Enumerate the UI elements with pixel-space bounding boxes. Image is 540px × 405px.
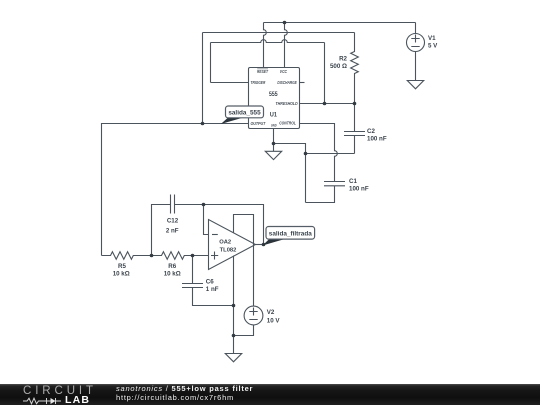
voltage source V2 <box>244 306 263 325</box>
wire TRIGGER vertical <box>210 43 212 83</box>
svg-text:500 Ω: 500 Ω <box>330 63 347 70</box>
svg-text:10 kΩ: 10 kΩ <box>113 271 130 278</box>
svg-text:C12: C12 <box>167 218 179 225</box>
wire OUTPUT line <box>102 124 249 256</box>
wire minus input <box>204 205 209 235</box>
wire gnd net right <box>274 144 306 203</box>
wire top rail <box>264 22 416 24</box>
wire V1 top lead <box>415 23 417 34</box>
wire output stub <box>256 244 264 246</box>
node dot gnd net <box>304 152 308 156</box>
resistor R6 <box>152 252 209 260</box>
footer bar <box>0 384 540 405</box>
svg-text:R5: R5 <box>118 263 126 270</box>
wire vertical from A down to output line <box>202 33 204 124</box>
capacitor C2 <box>344 104 365 154</box>
555 box U1 <box>249 68 300 129</box>
svg-text:TRIGGER: TRIGGER <box>251 80 266 85</box>
wire feedback vertical left <box>152 205 171 256</box>
svg-text:C6: C6 <box>206 279 214 286</box>
node dot rail/VCC <box>283 21 287 25</box>
op-amp plus symbol <box>211 252 218 260</box>
op-amp OA2 triangle <box>209 220 256 270</box>
svg-text:V2: V2 <box>267 309 275 316</box>
wire RESET vertical with hop <box>264 23 267 68</box>
wire V1 bottom lead <box>415 52 417 81</box>
svg-text:C1: C1 <box>349 178 357 185</box>
svg-text:10 kΩ: 10 kΩ <box>164 271 181 278</box>
svg-text:R6: R6 <box>168 263 176 270</box>
svg-text:DISCHARGE: DISCHARGE <box>277 80 296 85</box>
wire CONTROL to C1 with hop <box>300 124 338 182</box>
svg-text:RESET: RESET <box>257 69 268 74</box>
svg-text:OA2: OA2 <box>219 240 231 246</box>
node dot output/feedback <box>201 122 205 126</box>
wire TRIGGER horizontal <box>211 82 249 84</box>
svg-text:10 V: 10 V <box>267 318 281 325</box>
wire GND pin lead <box>273 129 275 152</box>
node dot -in/feedback <box>202 203 206 207</box>
svg-text:OUTPUT: OUTPUT <box>251 121 266 126</box>
resistor R5 <box>102 252 152 260</box>
node dot opamp output <box>262 243 266 247</box>
wire THRESHOLD <box>300 103 355 105</box>
svg-text:5 V: 5 V <box>428 43 438 50</box>
flag salida_555 <box>221 106 264 124</box>
node dot threshold/R2/C2 <box>353 102 357 106</box>
capacitor C12 <box>171 195 175 214</box>
svg-text:THRESHOLD: THRESHOLD <box>276 101 298 106</box>
node dot R5/R6/C12 <box>150 254 154 258</box>
svg-text:salida_filtrada: salida_filtrada <box>269 230 312 237</box>
wire horizontal B: trigger to threshold, hops over verticals <box>211 40 325 43</box>
wire V- supply down <box>233 256 235 354</box>
svg-text:555: 555 <box>269 91 278 98</box>
node dot V2/gnd <box>232 334 236 338</box>
ground (555) <box>265 151 281 159</box>
svg-text:100 nF: 100 nF <box>367 136 387 143</box>
ground (op-amp) <box>225 354 241 362</box>
svg-text:TL082: TL082 <box>220 248 237 254</box>
wire B right corner down to threshold <box>324 43 326 104</box>
resistor R2 <box>351 33 359 104</box>
svg-text:GND: GND <box>271 123 277 128</box>
capacitor C6 <box>182 256 234 306</box>
svg-text:100 nF: 100 nF <box>349 186 369 193</box>
node dot gnd pin <box>272 142 276 146</box>
svg-text:salida_555: salida_555 <box>228 109 261 116</box>
wire V2 bottom lead <box>234 325 254 336</box>
node dot C6/V- <box>232 304 236 308</box>
op-amp minus symbol <box>212 234 218 236</box>
svg-text:C2: C2 <box>367 128 375 135</box>
wire gnd horizontal to C2 bottom <box>306 153 355 155</box>
CircuitLab logo <box>23 385 97 397</box>
voltage source V1 <box>407 34 425 52</box>
svg-text:V1: V1 <box>428 35 436 42</box>
wire feedback top to output <box>175 205 264 245</box>
svg-text:1 nF: 1 nF <box>206 286 219 293</box>
wire VCC vertical with hop <box>285 23 288 68</box>
svg-text:R2: R2 <box>339 56 347 63</box>
wire DISCHARGE stub <box>300 82 305 84</box>
svg-text:CONTROL: CONTROL <box>279 121 296 126</box>
svg-text:2 nF: 2 nF <box>166 228 179 235</box>
wire horizontal A: output feedback to R2 <box>203 32 355 34</box>
flag salida_filtrada <box>263 227 315 246</box>
svg-text:VCC: VCC <box>280 69 288 74</box>
ground (V1) <box>407 81 423 89</box>
svg-text:U1: U1 <box>270 112 277 119</box>
capacitor C1 <box>306 182 346 203</box>
node dot R6/C6/+in <box>191 254 195 258</box>
wire V+ supply to V2 <box>234 215 254 307</box>
node dot threshold/trigger <box>323 102 327 106</box>
